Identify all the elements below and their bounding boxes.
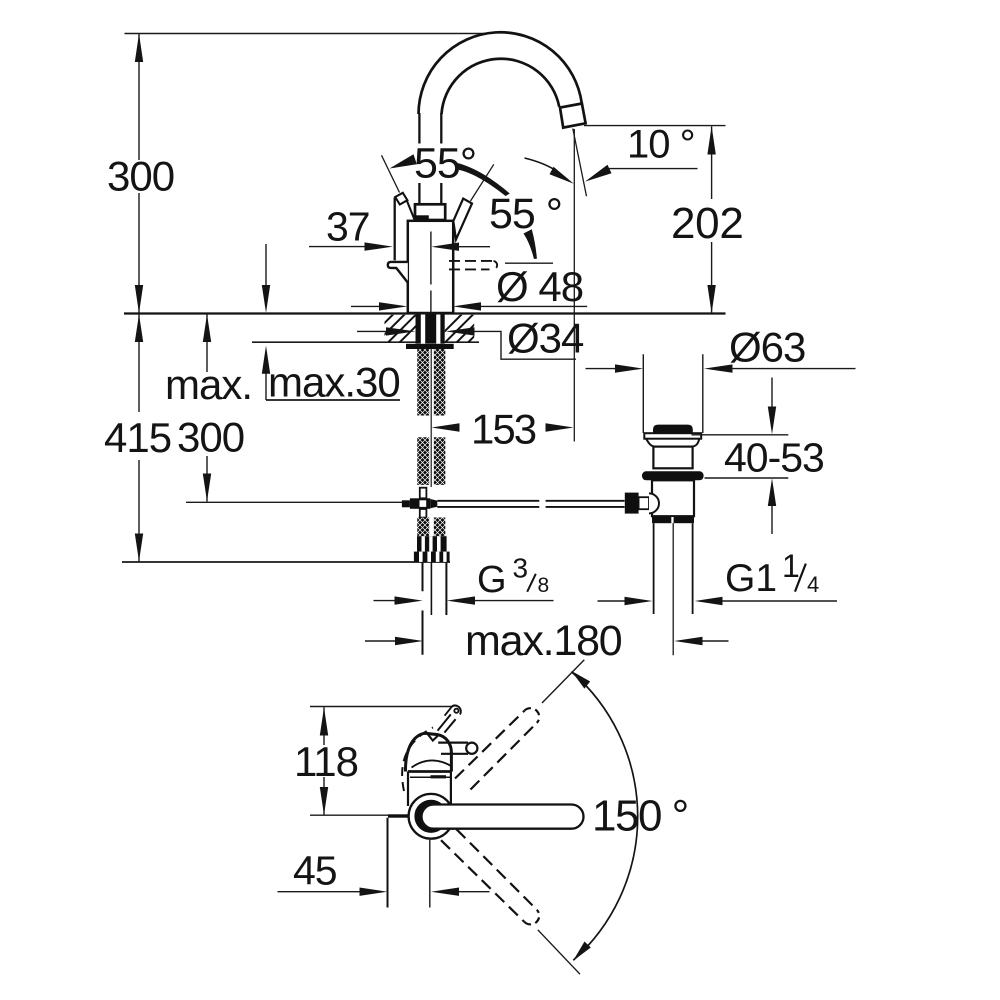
dim 118 (323, 707, 325, 814)
dim 153 arrows (431, 423, 459, 431)
drain body tube (652, 480, 694, 516)
dim 415 vertical line (138, 314, 140, 562)
faucet body (408, 221, 453, 313)
left lever diagonal edge (407, 201, 415, 220)
threaded shank through deck (416, 315, 445, 344)
svg-text:45: 45 (293, 848, 337, 894)
swivel joint outer circle (409, 794, 454, 839)
braided hose lower segment (417, 437, 429, 485)
drain pop-up cap (653, 425, 693, 434)
rod junction block (410, 498, 430, 509)
outlet 10deg slanted axis line (573, 129, 587, 197)
max.30 upper arrow (above counter) (265, 244, 267, 287)
55deg no1 right wedge (458, 163, 510, 196)
svg-text:55 °: 55 ° (489, 190, 562, 238)
solid handle bar (422, 805, 584, 829)
G3/8 connector ribbed section (417, 536, 447, 551)
dim 37 (309, 246, 365, 248)
handle-axis reference line (310, 814, 408, 816)
left lever cap (395, 193, 407, 205)
G3/8 connector nut (414, 552, 450, 562)
line at y=502 max300 bottom ref (186, 501, 402, 503)
svg-text:Ø 48: Ø 48 (496, 263, 583, 310)
drain upper cylinder (653, 447, 692, 469)
outlet pipe side view (438, 743, 468, 754)
dim G3/8 arrows (374, 600, 395, 602)
mounting nut bar (406, 344, 454, 349)
svg-text:G: G (477, 559, 507, 601)
svg-text:415: 415 (104, 414, 171, 461)
svg-text:37: 37 (326, 204, 370, 250)
svg-text:max.: max. (165, 361, 252, 408)
svg-text:3: 3 (513, 553, 529, 584)
max.30 underline (266, 399, 400, 401)
svg-text:8: 8 (538, 574, 550, 597)
svg-text:10 °: 10 ° (627, 123, 695, 167)
dim max.300 vertical line (206, 314, 208, 502)
dashed swivel arc (402, 728, 433, 792)
svg-text:Ø63: Ø63 (729, 324, 805, 371)
collar under pipes (415, 204, 445, 220)
svg-text:55°: 55° (414, 140, 476, 188)
dim 202 vertical (711, 126, 713, 313)
svg-text:1: 1 (782, 548, 800, 584)
55deg no2 wedge (524, 229, 537, 259)
braided hose upper segment (417, 349, 429, 416)
dim 45 (278, 891, 360, 893)
svg-text:150 °: 150 ° (592, 792, 688, 841)
top reference line (125, 33, 486, 35)
spout outer arc (419, 32, 582, 114)
10deg underline (608, 168, 698, 170)
drain neck flare (646, 439, 699, 447)
cap lip (644, 433, 701, 439)
dim 300 vertical line (138, 34, 140, 313)
150deg arc (572, 672, 638, 960)
O63 dim arrows (586, 368, 616, 370)
body rect side view (408, 770, 452, 773)
escutcheon edge bar (388, 814, 408, 817)
line at y=562 bottom of hoses (122, 561, 450, 563)
rod side knob on drain (625, 493, 639, 514)
dim max.180 arrows (365, 640, 395, 642)
left lever extended axis line (382, 155, 400, 192)
svg-text:Ø34: Ø34 (507, 315, 584, 362)
svg-text:300: 300 (177, 414, 244, 461)
short braid above G3/8 connector (417, 518, 429, 537)
pop-up rod (437, 500, 624, 502)
spout inner arc (442, 59, 560, 114)
dim arrows for O48 (351, 305, 379, 307)
dashed lever-down outline (449, 260, 494, 262)
max.30 lower arrow (below deck) (265, 374, 267, 401)
55deg no1 left wedge (390, 154, 417, 168)
dim G1 1/4 arrows (598, 600, 625, 602)
body dome (405, 733, 451, 771)
svg-text:40-53: 40-53 (724, 435, 824, 481)
body centerline (430, 232, 432, 313)
small vertical tube below rod (420, 509, 427, 518)
drain nut band (652, 517, 694, 523)
horizontal ref line from spout tip (584, 125, 726, 127)
max180 leader / upper axis line (542, 660, 584, 703)
10deg left arc arrow (525, 158, 556, 170)
dashed handle upper position (455, 711, 525, 779)
svg-text:max.30: max.30 (268, 359, 400, 406)
inner dome arc (412, 760, 451, 767)
small vertical tube above rod (420, 488, 427, 499)
svg-text:G1: G1 (725, 557, 777, 600)
center extension line (429, 840, 431, 908)
left pipe lines (418, 113, 420, 204)
right lever extended axis line (471, 164, 494, 201)
svg-text:202: 202 (671, 199, 744, 248)
lower axis line (538, 930, 580, 974)
lever-down axis line (505, 262, 553, 264)
lever up-position lines (445, 707, 452, 715)
svg-text:max.180: max.180 (465, 617, 622, 665)
hose centerline (430, 349, 432, 487)
drain centerline (672, 523, 674, 655)
svg-text:300: 300 (107, 153, 174, 200)
drain flange (642, 471, 704, 480)
wall line (387, 818, 389, 908)
top reference line of side view (310, 706, 452, 708)
deck underside line (252, 341, 479, 343)
tailpipe walls (654, 523, 693, 614)
svg-text:118: 118 (294, 738, 358, 785)
spout tip aerator block (560, 104, 586, 128)
supply pipe ends below (422, 562, 424, 655)
dim 40-53 (771, 378, 773, 408)
joint black ring (418, 803, 444, 829)
svg-text:4: 4 (807, 572, 819, 597)
left lever vertical edge (394, 198, 396, 261)
black cartridge bar (414, 215, 429, 221)
10deg right wedge arrow (585, 165, 612, 182)
dashed handle lower position (441, 840, 525, 922)
drain pull knob on left (388, 262, 408, 283)
dim arrows for O34 (357, 330, 386, 332)
outlet vertical reference line (573, 129, 575, 442)
dome notch (428, 734, 439, 741)
counter line (124, 312, 726, 314)
lever tip ball (454, 709, 458, 713)
O63 extension lines (643, 354, 703, 433)
svg-text:153: 153 (471, 406, 536, 453)
right lever (453, 199, 472, 240)
